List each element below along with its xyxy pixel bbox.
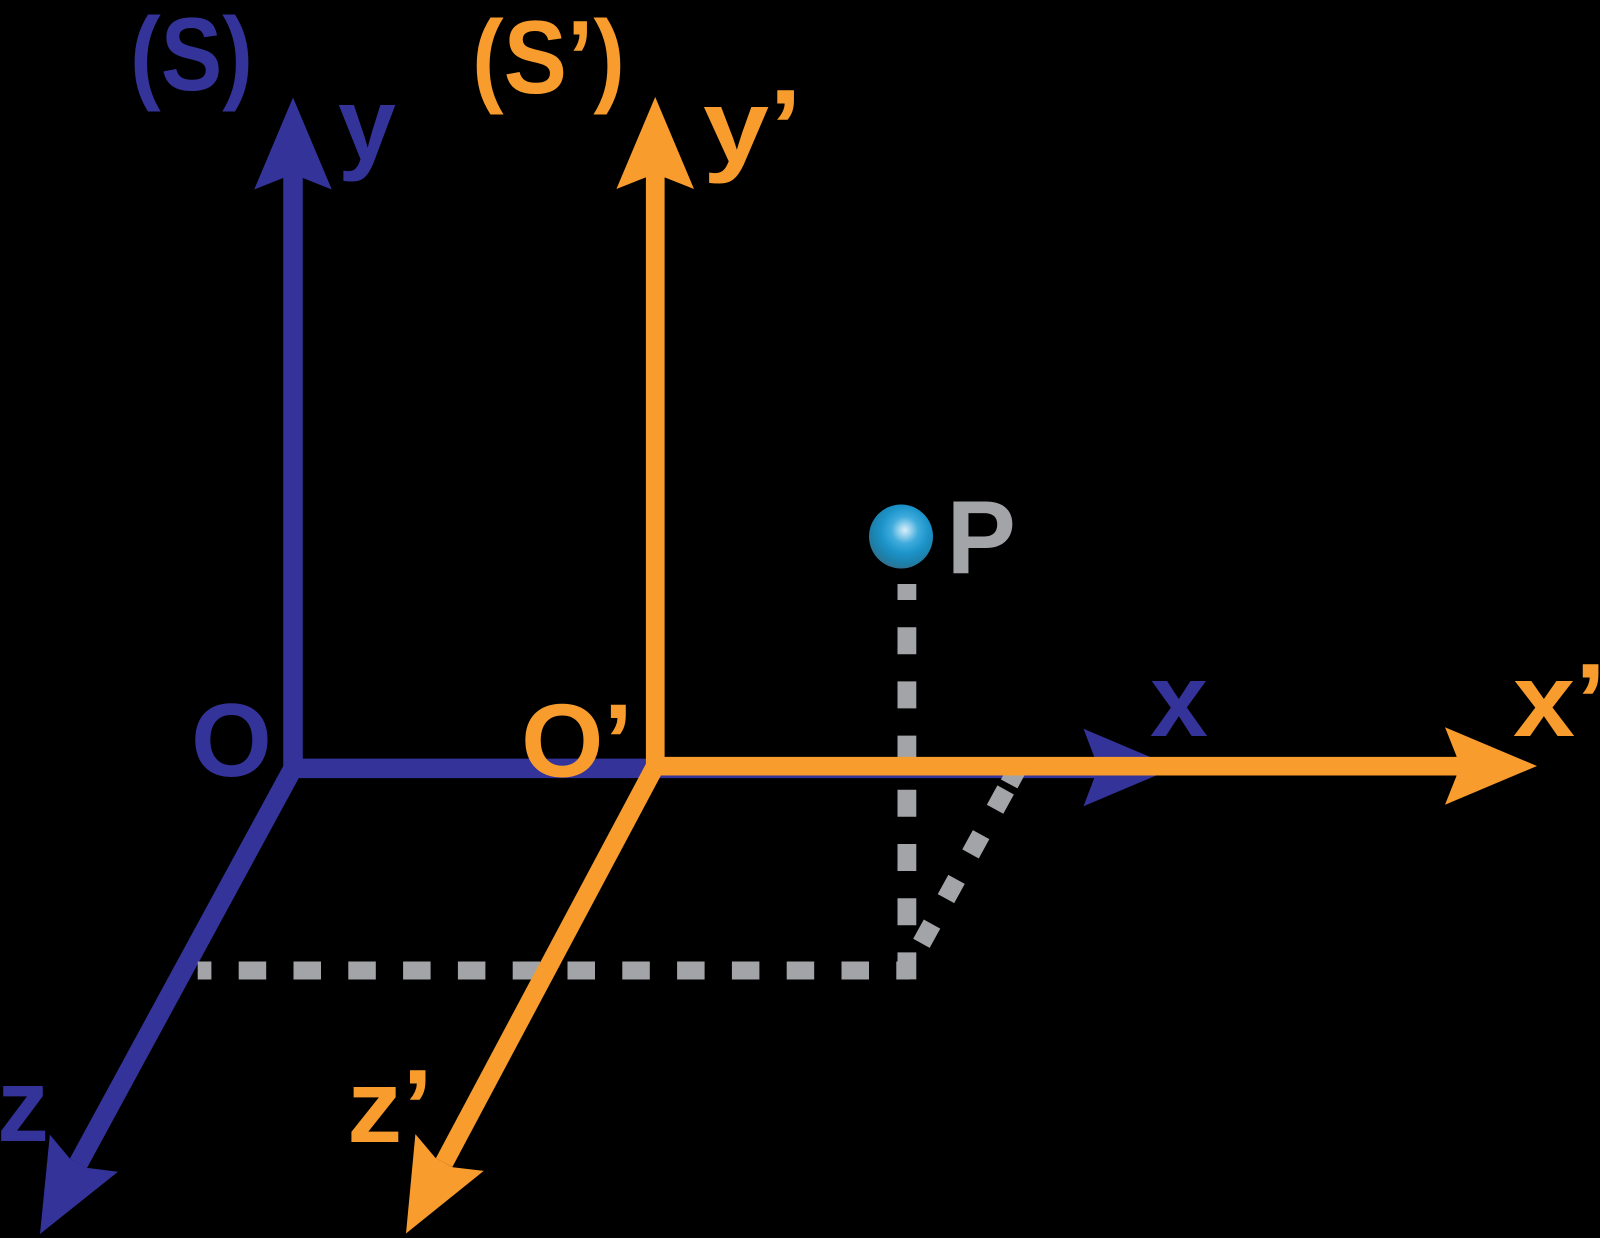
- svg-text:O’: O’: [521, 684, 633, 800]
- frame S: y-axis arrowhead: [254, 98, 332, 190]
- svg-text:y: y: [338, 67, 396, 183]
- point P sphere: [869, 505, 933, 569]
- dashed line in xz-plane (gray, horizontal): [198, 962, 910, 980]
- frame S: x-axis arrowhead: [1084, 729, 1176, 807]
- frame S': z'-axis arrowhead: [406, 1134, 484, 1233]
- frame S: y-axis and x-axis shafts (blue): [293, 172, 1095, 768]
- svg-text:O: O: [191, 683, 272, 799]
- frame S': z'-axis shaft (orange): [444, 766, 655, 1162]
- frame S': y'-axis and x'-axis shafts (orange): [655, 176, 1457, 766]
- dashed line parallel to z toward x-axis (gray, diagonal): [907, 766, 1019, 971]
- svg-text:x’: x’: [1513, 643, 1600, 759]
- dashed drop line from P (gray, vertical): [898, 584, 917, 981]
- svg-text:P: P: [947, 480, 1016, 596]
- dashed line final sliver at x'-axis: [1009, 766, 1019, 784]
- svg-text:x: x: [1150, 643, 1208, 759]
- svg-text:z’: z’: [347, 1049, 433, 1165]
- svg-text:y’: y’: [703, 69, 802, 185]
- frame S: z-axis arrowhead: [40, 1135, 118, 1234]
- frame S': y'-axis arrowhead: [616, 97, 694, 189]
- svg-text:z: z: [0, 1048, 49, 1164]
- svg-text:(S): (S): [130, 0, 253, 113]
- svg-text:(S’): (S’): [472, 0, 625, 116]
- frame S': x'-axis arrowhead: [1445, 727, 1537, 805]
- frame S: z-axis shaft (blue): [78, 768, 293, 1163]
